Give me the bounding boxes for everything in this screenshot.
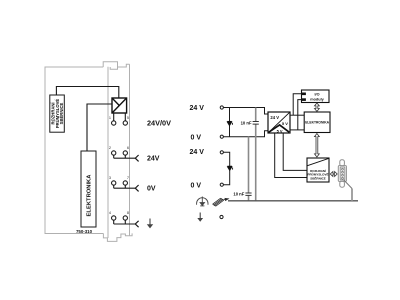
svg-text:8: 8 bbox=[127, 211, 129, 215]
svg-text:24 V: 24 V bbox=[190, 149, 205, 156]
svg-text:750-310: 750-310 bbox=[76, 229, 93, 234]
svg-text:SBĚRNICE: SBĚRNICE bbox=[310, 175, 326, 180]
svg-text:24 V: 24 V bbox=[270, 115, 279, 120]
svg-text:0 V: 0 V bbox=[191, 134, 202, 141]
svg-text:2: 2 bbox=[109, 146, 111, 150]
svg-text:24 V: 24 V bbox=[190, 105, 205, 112]
svg-text:24V: 24V bbox=[147, 156, 160, 163]
svg-text:moduly: moduly bbox=[310, 97, 324, 101]
svg-text:24V/0V: 24V/0V bbox=[147, 119, 171, 128]
svg-text:0 V: 0 V bbox=[191, 182, 202, 189]
svg-text:3: 3 bbox=[109, 176, 111, 180]
svg-text:ELEKTRONIKA: ELEKTRONIKA bbox=[305, 121, 329, 125]
svg-text:1: 1 bbox=[109, 116, 111, 120]
svg-text:SBĚRNICE: SBĚRNICE bbox=[59, 102, 64, 124]
svg-text:ELEKTRONIKA: ELEKTRONIKA bbox=[86, 174, 92, 217]
svg-text:5 V: 5 V bbox=[277, 128, 283, 133]
svg-text:7: 7 bbox=[127, 176, 129, 180]
svg-text:5 V: 5 V bbox=[282, 121, 288, 126]
svg-text:0V: 0V bbox=[147, 186, 156, 193]
svg-text:6: 6 bbox=[127, 146, 129, 150]
svg-text:4: 4 bbox=[109, 211, 111, 215]
svg-text:10 nF: 10 nF bbox=[241, 120, 252, 125]
svg-text:5: 5 bbox=[127, 116, 129, 120]
svg-text:I/O: I/O bbox=[314, 92, 319, 96]
svg-text:10 nF: 10 nF bbox=[233, 192, 244, 197]
